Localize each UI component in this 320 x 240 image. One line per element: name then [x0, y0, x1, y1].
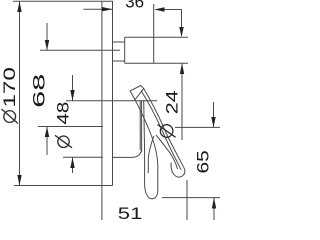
svg-text:170: 170: [0, 67, 19, 108]
Ø48 top arrowhead (down): [70, 90, 74, 101]
cartridge flange bottom: [113, 60, 125, 62]
wall plate left edge / 51 extension: [101, 1, 103, 220]
vertical lever blade back edge: [143, 100, 146, 186]
68 bottom arrowhead (up): [45, 127, 49, 138]
diameter symbol for 48: [58, 136, 69, 147]
svg-text:36: 36: [125, 0, 144, 11]
hub bottom edge with rounded corner: [113, 150, 142, 157]
36 left arrow shaft: [84, 8, 113, 10]
Ø48 bottom extension: [63, 156, 103, 158]
Ø170 dimension shaft: [19, 1, 21, 185]
Ø24 bottom arrowhead (up): [180, 63, 184, 74]
hub top edge + Ø48 top extension: [66, 100, 157, 102]
Ø170 top arrowhead: [17, 1, 21, 12]
lever cap (butt end): [130, 86, 144, 100]
valve axis line (68 top extension): [40, 49, 120, 51]
lever arm upper edge inner: [141, 91, 181, 170]
svg-text:68: 68: [30, 74, 49, 108]
lever arm rounded tip: [172, 168, 185, 177]
handle axis line left (68 bottom extension): [38, 126, 103, 128]
lever arm lower edge flowing into grip front edge: [135, 100, 158, 191]
36 right arrowhead (left): [154, 7, 164, 11]
Ø48 bottom arrowhead (up): [70, 157, 74, 168]
grip middle contour line: [148, 136, 154, 173]
cartridge box front face + 36 right extension: [153, 4, 155, 63]
plate top edge + 170 top extension: [13, 0, 113, 2]
68 top arrow shaft: [46, 23, 48, 50]
Ø170 bottom arrowhead: [17, 175, 21, 186]
36 left arrowhead (right): [102, 7, 113, 11]
65 top arrow shaft: [213, 102, 215, 127]
Ø48 top arrow shaft: [72, 75, 74, 101]
hub front face: [141, 101, 143, 152]
lever tip inner fold line: [171, 163, 172, 172]
hub front face inner line: [139, 101, 141, 150]
51 right extension from lever: [186, 180, 188, 220]
lever arm lower edge to tip: [156, 135, 178, 169]
65 top arrowhead (down): [211, 117, 215, 127]
65 bottom arrow shaft: [213, 198, 215, 220]
68 top arrowhead (down): [45, 40, 49, 50]
diameter symbol for 24: [160, 125, 173, 138]
lever tip bottom extension (65): [162, 197, 220, 199]
svg-text:24: 24: [163, 90, 182, 114]
lever arm upper edge outer: [144, 89, 184, 168]
65 bottom arrowhead (up): [212, 198, 216, 209]
cartridge flange top: [113, 41, 125, 43]
diameter symbol for 170: [4, 111, 16, 123]
plate bottom edge + 170 bottom extension: [14, 185, 113, 187]
svg-text:65: 65: [194, 150, 213, 173]
cartridge box bottom + Ø24 bottom extension: [125, 62, 188, 64]
svg-text:51: 51: [118, 204, 143, 220]
svg-text:48: 48: [53, 102, 72, 125]
Ø24 bottom arrow shaft: [181, 63, 183, 140]
wall plate right edge: [112, 1, 114, 186]
cartridge box left: [124, 37, 126, 63]
Ø24 top arrowhead (down): [179, 27, 183, 37]
vertical lever blade rounded tip: [145, 186, 158, 199]
Ø48 bottom arrow shaft: [72, 157, 74, 173]
handle axis line right (65 top extension): [175, 126, 220, 128]
68 bottom arrow shaft: [46, 127, 48, 156]
cartridge box top + Ø24 top extension: [125, 36, 188, 38]
36 right arrow shaft with bend to Ø24 top arrow: [164, 10, 182, 28]
